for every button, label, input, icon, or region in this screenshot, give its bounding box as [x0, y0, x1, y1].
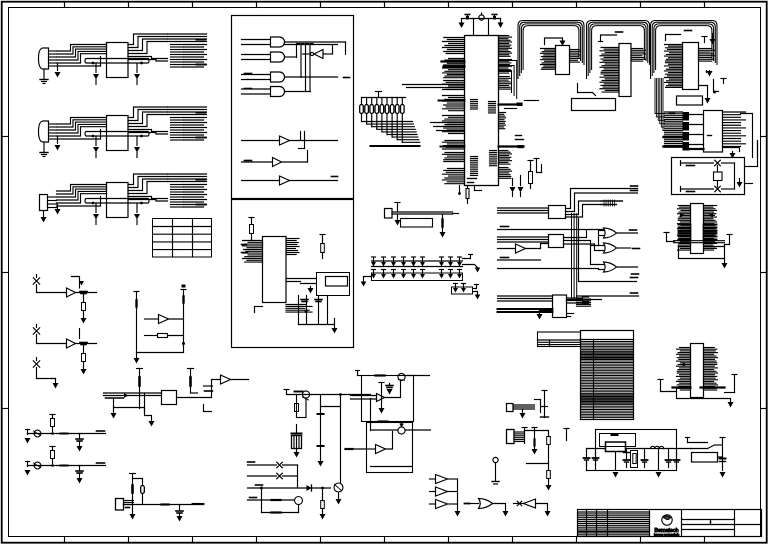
- svg-text:inovacao em tecnologia: inovacao em tecnologia: [654, 534, 680, 537]
